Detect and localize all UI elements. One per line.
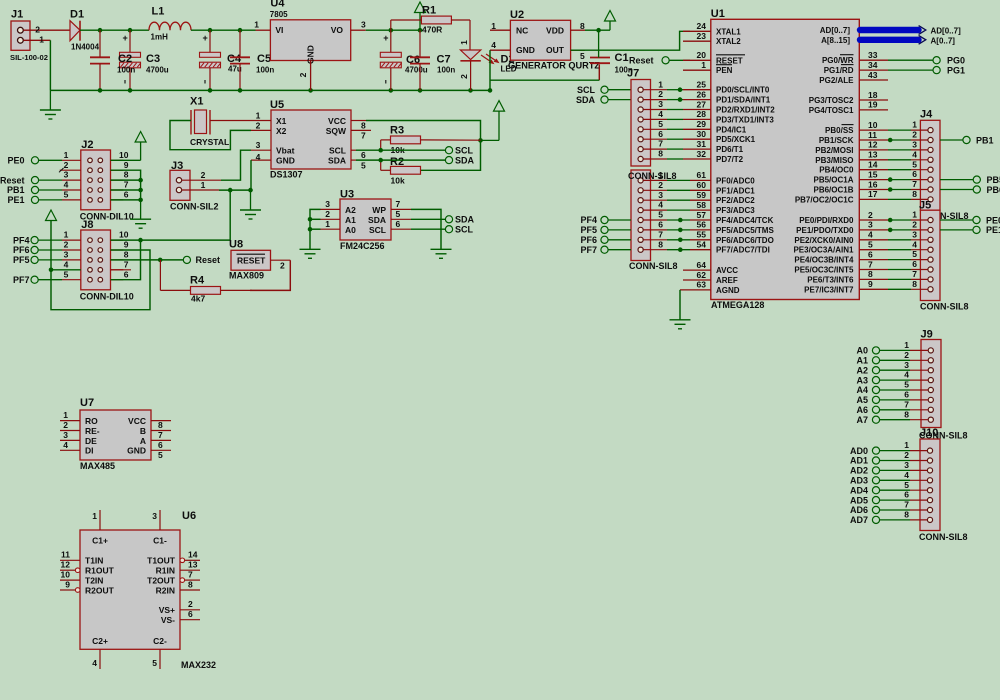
junction [208,88,213,93]
svg-text:FM24C256: FM24C256 [340,241,385,251]
svg-text:RO: RO [85,416,98,426]
svg-text:CONN-SIL2: CONN-SIL2 [170,202,219,212]
svg-text:SDA: SDA [576,95,596,105]
svg-text:AVCC: AVCC [716,266,738,275]
svg-text:C3: C3 [146,53,160,65]
svg-text:U7: U7 [80,397,94,409]
U1 pin AREF [683,270,738,285]
svg-text:4: 4 [64,180,69,190]
svg-text:PD1/SDA/INT1: PD1/SDA/INT1 [716,96,771,105]
svg-text:A1: A1 [856,356,868,366]
svg-text:4: 4 [912,239,917,249]
junction [678,247,683,252]
node PF7 [13,275,81,285]
capacitor C7 [410,30,455,90]
svg-text:R2IN: R2IN [156,585,175,595]
node A2 [856,365,879,375]
svg-text:PF6/ADC6/TDO: PF6/ADC6/TDO [716,236,774,245]
svg-text:1: 1 [92,511,97,521]
svg-text:62: 62 [697,270,707,280]
svg-text:2: 2 [658,180,663,190]
junction [238,28,243,33]
wire [679,290,681,320]
node PF5 [13,255,81,265]
svg-text:VO: VO [331,25,344,35]
U1 pin PB3/MISO [815,150,877,165]
svg-text:58: 58 [697,200,707,210]
wire [356,159,445,161]
svg-text:4: 4 [904,370,909,380]
svg-text:C2: C2 [118,53,132,65]
svg-text:2: 2 [188,599,193,609]
svg-text:PB6: PB6 [987,185,1000,195]
junction [678,228,683,233]
node SDA [576,95,638,105]
svg-text:VCC: VCC [328,116,346,126]
svg-text:3: 3 [658,190,663,200]
svg-text:7: 7 [396,199,401,209]
node PF6 [580,235,631,245]
svg-text:R1IN: R1IN [156,566,175,576]
svg-text:8: 8 [912,189,917,199]
svg-text:GND: GND [127,446,146,456]
svg-text:4: 4 [63,440,68,450]
power VCC [481,101,505,141]
wire [111,239,231,241]
svg-text:B: B [140,426,146,436]
wire [170,121,251,150]
svg-text:D1: D1 [70,9,84,21]
svg-text:PG1/RD: PG1/RD [824,66,854,75]
svg-text:PE0: PE0 [986,215,1000,225]
svg-text:PG4/TOSC1: PG4/TOSC1 [809,106,854,115]
svg-text:7: 7 [658,139,663,149]
svg-text:9: 9 [65,579,70,589]
MCU U1 ATMEGA128 [711,8,860,310]
svg-text:1: 1 [701,60,706,70]
svg-text:26: 26 [697,89,707,99]
svg-text:AD2: AD2 [850,466,868,476]
svg-text:CRYSTAL: CRYSTAL [190,137,229,147]
wire [221,150,251,180]
junction [308,88,313,93]
svg-text:24: 24 [697,21,707,31]
oscillator U2 [490,9,600,71]
svg-text:PF4/ADC4/TCK: PF4/ADC4/TCK [716,216,774,225]
svg-text:A3: A3 [856,375,868,385]
svg-text:PE2/XCK0/AIN0: PE2/XCK0/AIN0 [794,236,854,245]
inductor L1 [149,6,191,42]
svg-text:PF3/ADC3: PF3/ADC3 [716,206,755,215]
svg-text:4: 4 [658,200,663,210]
svg-text:A7: A7 [856,415,868,425]
svg-text:SCL: SCL [369,225,386,235]
U1 pin PB0/SS overline [842,124,854,126]
svg-text:3: 3 [361,20,366,30]
U1 pin PB1/SCK [819,130,877,145]
node PF4 [13,235,81,245]
svg-text:8: 8 [868,269,873,279]
U1 pin PG3/TOSC2 [809,90,888,105]
svg-text:9: 9 [868,279,873,289]
junction [389,28,394,33]
svg-text:A[8..15]: A[8..15] [821,36,850,45]
svg-text:SDA: SDA [455,215,475,225]
svg-text:AD0: AD0 [850,446,868,456]
wire [489,50,491,90]
junction [678,87,683,92]
svg-text:9: 9 [124,240,129,250]
capacitor C1 [590,30,633,74]
wire [366,29,423,31]
power VCC [46,210,57,221]
svg-text:A5: A5 [856,395,868,405]
node PB1 [940,135,994,145]
svg-text:2: 2 [64,240,69,250]
wire [49,40,51,90]
svg-text:5: 5 [658,210,663,220]
svg-text:6: 6 [904,390,909,400]
svg-text:4: 4 [491,40,496,50]
junction [158,258,163,263]
svg-text:PG2/ALE: PG2/ALE [819,76,854,85]
svg-text:A[0..7]: A[0..7] [931,36,956,45]
svg-text:1: 1 [459,40,469,45]
U1 pin PB6/OC1B [813,179,877,194]
IC U7 MAX485 [60,397,171,471]
svg-text:PF5: PF5 [13,255,30,265]
svg-text:7: 7 [912,179,917,189]
svg-text:VI: VI [275,25,283,35]
svg-text:PEN: PEN [716,66,733,75]
node PB6 [940,185,1000,195]
svg-text:13: 13 [868,150,878,160]
svg-text:4: 4 [256,152,261,162]
svg-text:3: 3 [64,250,69,260]
svg-text:C7: C7 [437,54,451,66]
svg-text:U1: U1 [711,8,725,20]
U1 pin PE2/XCK0/AIN0 [794,230,873,245]
svg-text:2: 2 [325,209,330,219]
svg-text:Vbat: Vbat [276,146,295,156]
svg-text:6: 6 [361,150,366,160]
svg-text:64: 64 [697,260,707,270]
svg-text:4: 4 [912,149,917,159]
svg-text:5: 5 [64,269,69,279]
svg-text:R1: R1 [422,5,436,17]
svg-text:1N4004: 1N4004 [71,42,100,51]
svg-text:MAX809: MAX809 [229,271,264,281]
junction [888,177,893,182]
svg-text:470R: 470R [422,24,442,34]
junction [389,88,394,93]
node PF4 [580,215,631,225]
svg-text:PB6/OC1B: PB6/OC1B [813,186,853,195]
svg-text:5: 5 [868,240,873,250]
U1 pin PG4/TOSC1 [809,100,888,115]
svg-text:AD6: AD6 [850,505,868,515]
svg-text:10k: 10k [391,176,405,186]
svg-text:6: 6 [188,609,193,619]
svg-text:VCC: VCC [128,416,146,426]
svg-text:PF4: PF4 [580,215,597,225]
svg-text:2: 2 [64,160,69,170]
power VCC [135,132,146,161]
svg-text:8: 8 [188,579,193,589]
U1 pin PF4/ADC4/TCK [697,210,774,225]
wire [111,199,141,201]
node PF6 [13,245,81,255]
svg-text:1: 1 [63,410,68,420]
U1 pin PE4/OC3B/INT4 [794,249,873,264]
U1 pin PE6/T3/INT6 [807,269,873,284]
svg-text:60: 60 [697,180,707,190]
U1 pin PD6/T1 [697,139,744,154]
junction [308,217,313,222]
svg-text:AREF: AREF [716,276,738,285]
connector J4 [859,109,968,222]
svg-text:CONN-SIL8: CONN-SIL8 [628,171,677,181]
svg-text:PB0/SS: PB0/SS [825,126,854,135]
svg-text:PG1: PG1 [947,65,965,75]
svg-text:4700u: 4700u [405,65,428,74]
svg-text:5: 5 [904,380,909,390]
power VCC [605,11,616,31]
U1 pin XTAL2 [683,31,741,46]
svg-text:SIL-100-02: SIL-100-02 [10,53,48,62]
svg-text:AD3: AD3 [850,476,868,486]
junction [138,198,143,203]
svg-text:SQW: SQW [326,126,347,136]
junction [138,238,143,243]
junction [468,88,473,93]
junction [98,88,103,93]
capacitor C4 [200,30,242,90]
svg-text:7805: 7805 [270,10,288,19]
U1 pin PF1/ADC1 [697,180,756,195]
svg-text:2: 2 [912,130,917,140]
node SCL [445,225,473,235]
svg-text:SCL: SCL [455,146,474,156]
wire [250,160,252,190]
svg-text:J2: J2 [81,139,93,151]
resistor R2 [381,156,421,186]
U1 pin PE5/OC3C/INT5 [794,259,873,274]
svg-text:R3: R3 [390,124,404,136]
svg-text:PE6/T3/INT6: PE6/T3/INT6 [807,275,854,284]
wire [111,179,141,181]
svg-text:6: 6 [912,169,917,179]
svg-text:8: 8 [904,510,909,520]
svg-text:1: 1 [912,210,917,220]
svg-text:33: 33 [868,50,878,60]
wire [411,209,441,249]
svg-text:A4: A4 [856,385,868,395]
svg-text:7: 7 [124,259,129,269]
node PG0 [888,56,965,66]
svg-text:PB5: PB5 [987,175,1000,185]
svg-text:CONN-DIL10: CONN-DIL10 [80,292,134,302]
svg-text:AD7: AD7 [850,515,868,525]
wire [490,64,599,80]
capacitor C3 [117,30,169,90]
svg-text:1mH: 1mH [151,32,169,41]
svg-text:1: 1 [254,20,259,30]
svg-text:XTAL1: XTAL1 [716,27,741,36]
svg-text:+: + [203,33,208,43]
node SDA [445,155,474,165]
svg-text:1: 1 [912,120,917,130]
svg-text:T2IN: T2IN [85,576,103,586]
svg-text:6: 6 [396,219,401,229]
ground [240,190,261,219]
svg-text:A1: A1 [345,215,356,225]
junction [98,28,103,33]
svg-text:30: 30 [697,129,707,139]
svg-text:7: 7 [361,130,366,140]
node Reset [183,255,220,265]
svg-text:2: 2 [63,420,68,430]
svg-text:MAX485: MAX485 [80,461,115,471]
svg-text:AD[0..7]: AD[0..7] [931,26,962,35]
node A6 [856,405,879,415]
junction [488,88,493,93]
svg-text:T1OUT: T1OUT [147,556,176,566]
svg-text:U8: U8 [229,239,243,251]
svg-text:A0: A0 [345,225,356,235]
wire [571,31,690,50]
junction [49,268,54,273]
junction [678,218,683,223]
svg-text:C1: C1 [615,52,629,64]
svg-text:PE0: PE0 [7,156,24,166]
svg-text:1: 1 [64,230,69,240]
junction [138,178,143,183]
svg-text:10: 10 [119,150,129,160]
svg-text:PD7/T2: PD7/T2 [716,155,744,164]
svg-text:3: 3 [912,229,917,239]
node PF7 [580,245,631,255]
svg-text:AD1: AD1 [850,456,868,466]
svg-text:PD6/T1: PD6/T1 [716,145,744,154]
svg-text:7: 7 [904,399,909,409]
junction [418,88,423,93]
node PB5 [940,175,1000,185]
node A1 [856,356,879,366]
crystal X1 [190,96,251,148]
svg-text:2: 2 [912,220,917,230]
svg-text:WP: WP [372,205,386,215]
node AD0 [850,446,880,456]
svg-text:2: 2 [868,210,873,220]
wire [229,190,231,240]
svg-text:43: 43 [868,70,878,80]
svg-text:1: 1 [491,21,496,31]
junction [888,228,893,233]
svg-text:X1: X1 [190,96,203,108]
junction [478,138,483,143]
svg-text:AGND: AGND [716,286,740,295]
junction [308,227,313,232]
svg-text:AD[0..7]: AD[0..7] [820,26,851,35]
svg-text:7: 7 [868,259,873,269]
svg-text:XTAL2: XTAL2 [716,37,741,46]
ground [130,200,151,228]
svg-text:7: 7 [158,430,163,440]
svg-text:U4: U4 [270,0,285,10]
diode D1 [70,9,100,52]
svg-text:61: 61 [697,170,707,180]
svg-text:55: 55 [697,230,707,240]
wire [80,29,149,31]
svg-text:3: 3 [904,460,909,470]
U1 pin PE1/PDO/TXD0 [796,220,873,235]
ground [431,249,452,258]
svg-text:PE7/IC3/INT7: PE7/IC3/INT7 [804,285,854,294]
IC U5 DS1307 [251,99,371,179]
connector J3 [170,160,221,212]
U1 pin PD1/SDA/INT1 [697,89,771,104]
svg-text:PB5/OC1A: PB5/OC1A [813,176,853,185]
svg-text:8: 8 [904,409,909,419]
wire [219,189,251,191]
svg-text:1: 1 [201,180,206,190]
svg-text:100n: 100n [256,65,274,74]
svg-text:2: 2 [201,170,206,180]
svg-text:PE1: PE1 [986,225,1000,235]
svg-text:34: 34 [868,60,878,70]
U1 pin PB0/SS [825,120,878,135]
junction [678,238,683,243]
wire [366,121,481,171]
svg-text:5: 5 [152,658,157,668]
wire [310,209,321,249]
svg-text:R2OUT: R2OUT [85,585,115,595]
svg-text:4: 4 [92,658,97,668]
svg-text:CONN-SIL8: CONN-SIL8 [920,302,969,312]
junction [378,158,383,163]
svg-text:2: 2 [298,72,308,77]
node AD2 [850,466,880,476]
svg-text:RESET: RESET [237,256,266,266]
U1 pin PF5/ADC5/TMS [697,220,775,235]
capacitor C6 [380,30,427,90]
svg-text:PF5/ADC5/TMS: PF5/ADC5/TMS [716,226,774,235]
IC U6 MAX232 [60,510,216,670]
svg-text:2: 2 [256,120,261,130]
svg-text:PD4/IC1: PD4/IC1 [716,125,747,134]
svg-text:3: 3 [256,140,261,150]
wire [50,89,490,91]
U1 pin XTAL1 [683,21,741,36]
junction [208,28,213,33]
svg-text:2: 2 [904,350,909,360]
svg-text:PD5/XCK1: PD5/XCK1 [716,135,756,144]
U1 pin PB4/OC0 [819,160,877,175]
node A4 [856,385,879,395]
wire [356,149,445,151]
svg-text:T2OUT: T2OUT [147,576,176,586]
connector J8 [64,219,134,302]
svg-text:5: 5 [904,480,909,490]
node AD3 [850,476,880,486]
svg-text:SDA: SDA [455,155,475,165]
IC U8 MAX809 [229,239,290,281]
svg-text:4: 4 [904,470,909,480]
svg-text:PF5: PF5 [580,225,597,235]
svg-text:J9: J9 [921,329,933,341]
U1 pin PF7/ADC7/TDI [697,240,770,255]
